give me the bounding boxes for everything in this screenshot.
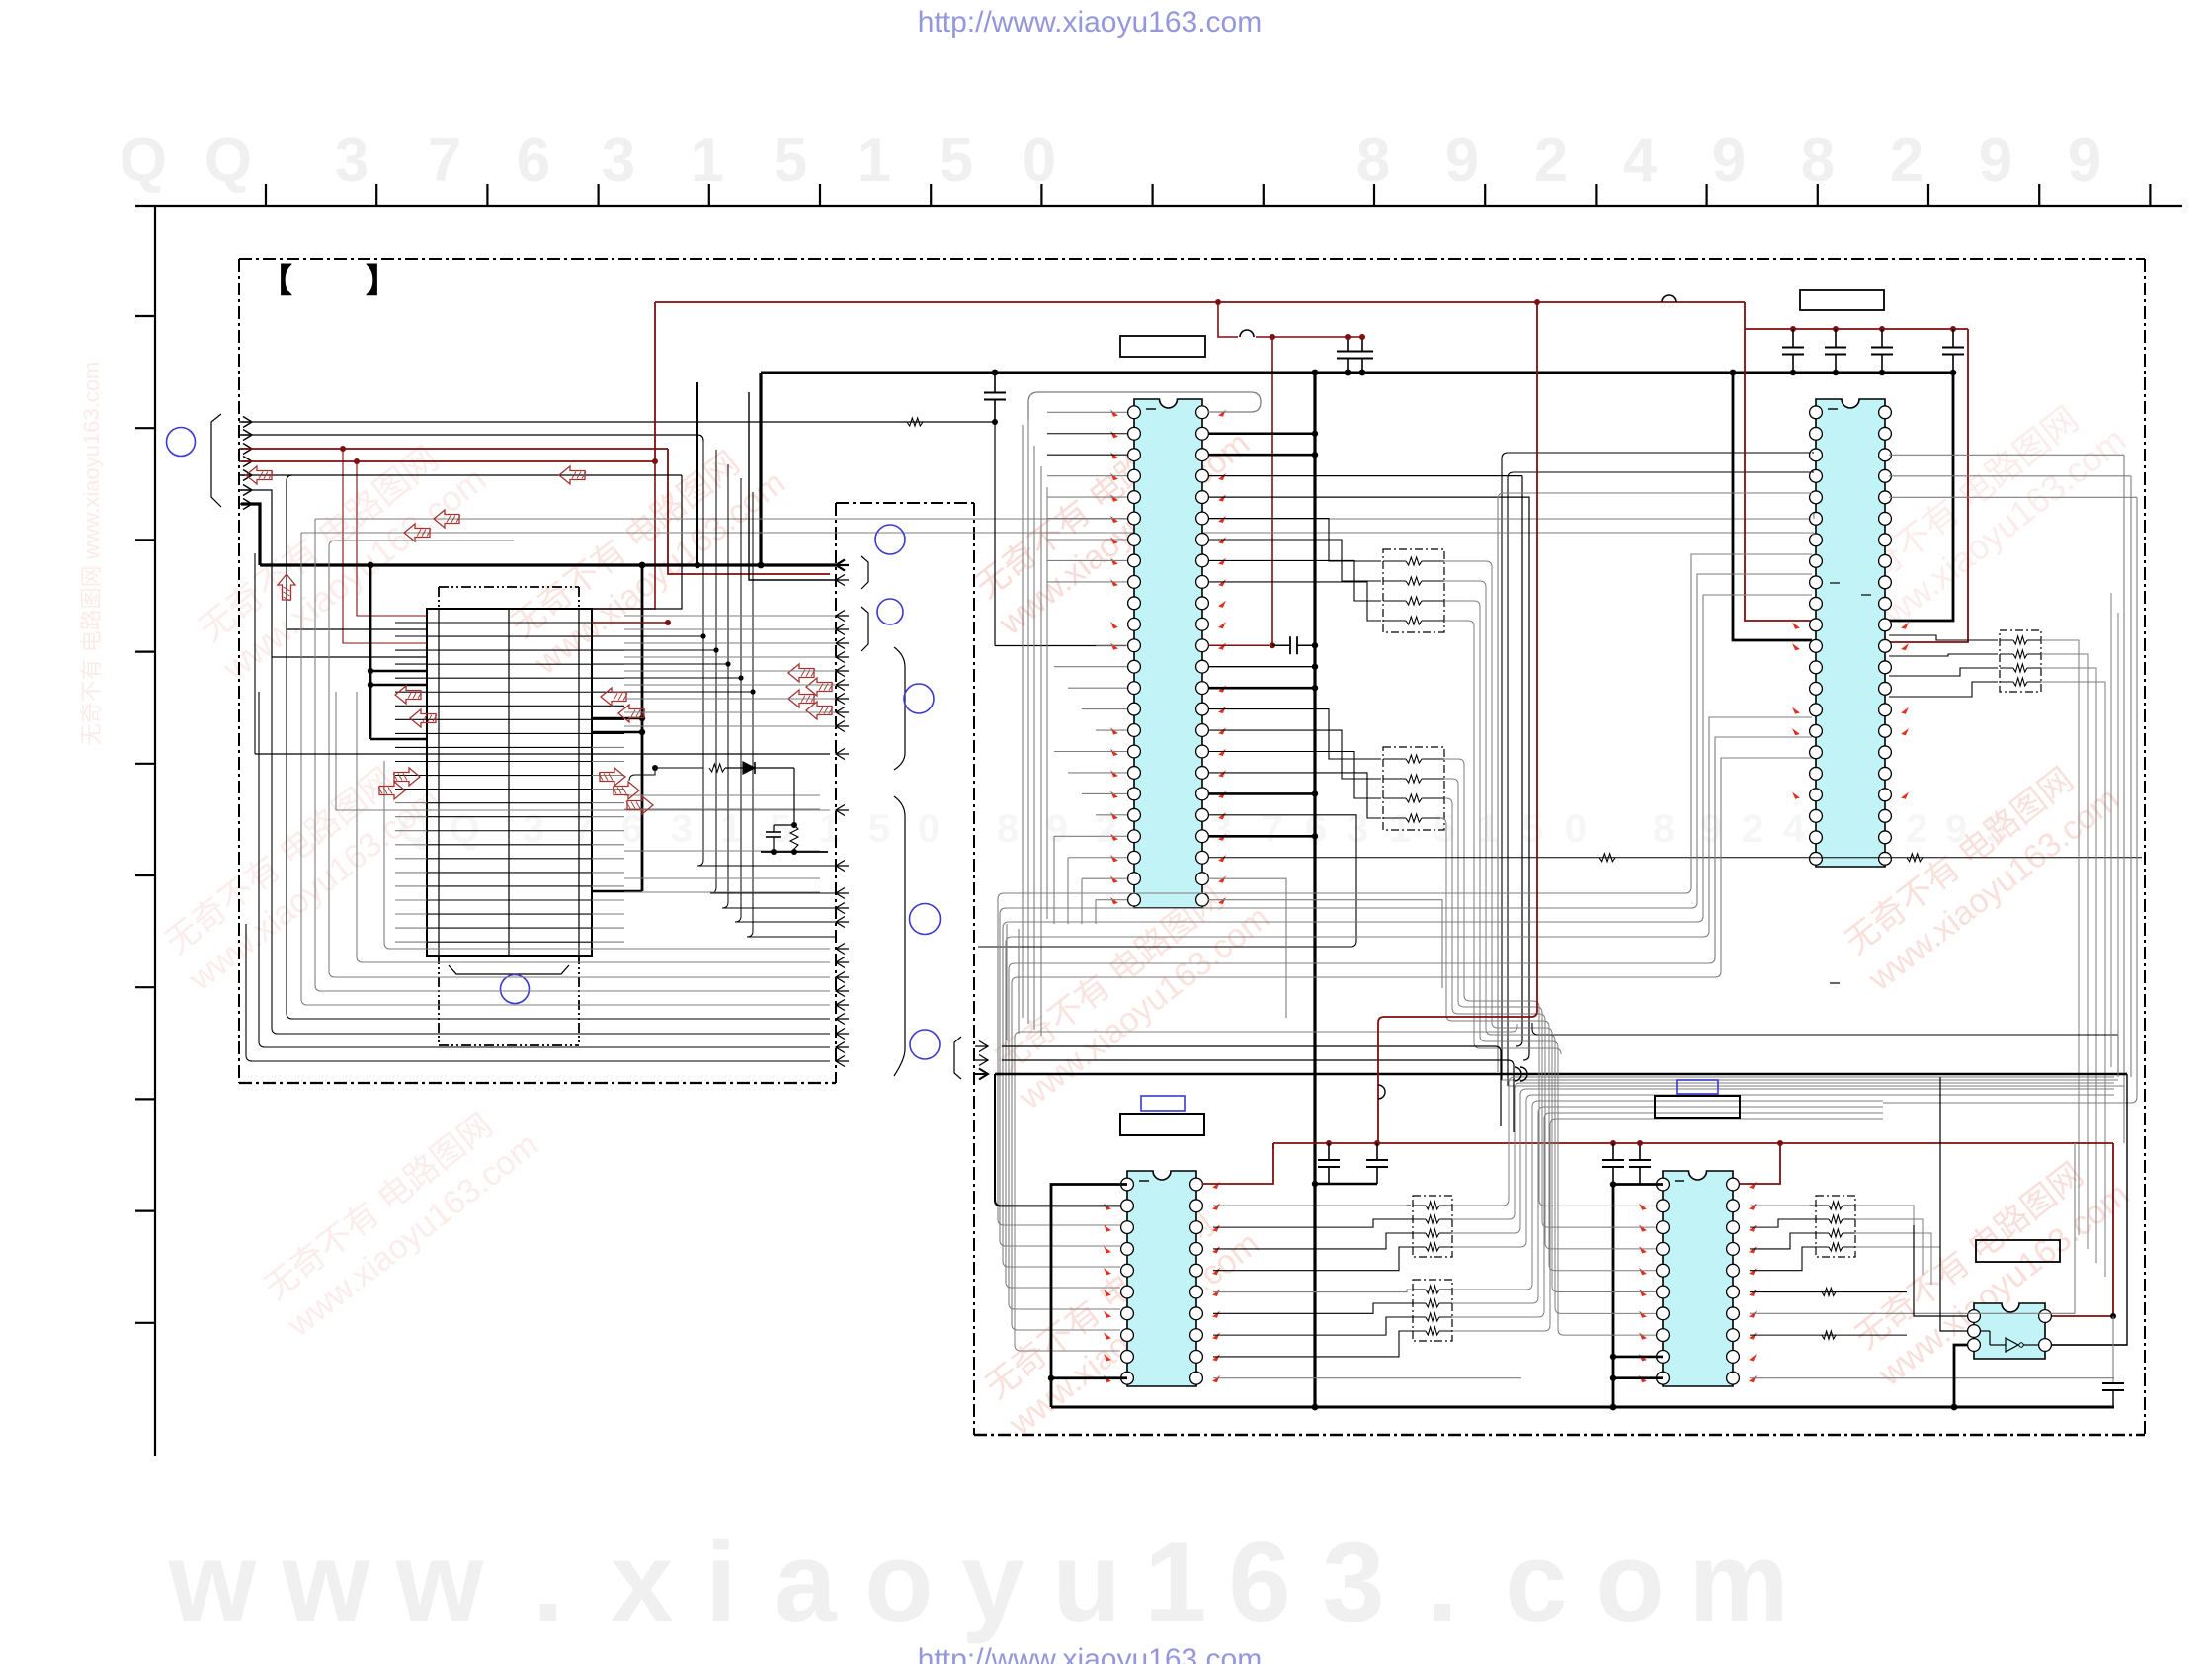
- svg-text:2: 2: [1742, 807, 1763, 851]
- wire: vertical x305 bottom loop: [301, 533, 830, 1005]
- wire: thick bus y574: [260, 563, 836, 566]
- svg-text:c: c: [1505, 1520, 1567, 1645]
- IC U1 pins: [1128, 406, 1141, 419]
- wires out of box C rising to long rows: [1452, 1077, 2114, 1206]
- wire: bottom bundle row1047 long: [1538, 1034, 2118, 1036]
- pink watermark mid lower: [985, 865, 1276, 1118]
- wire: IC2 right rows extend: [1889, 454, 2124, 456]
- IC U5 pins: [1968, 1310, 1981, 1323]
- svg-text:7: 7: [428, 126, 461, 195]
- connector left pin leads: [395, 622, 427, 624]
- wire: red row3 drop x676 to 581: [668, 449, 830, 574]
- diode D1: [743, 762, 755, 774]
- brace right of terminals rows572-587: [861, 556, 868, 589]
- caps IC3 area: [1328, 1143, 1330, 1160]
- wire: IC1 pin22 long with resistors: [1208, 857, 2142, 859]
- wire: thick riser x770 to top bus: [759, 373, 762, 565]
- svg-text:3: 3: [1210, 807, 1232, 851]
- svg-text:1: 1: [819, 807, 841, 851]
- svg-text:6: 6: [517, 126, 550, 195]
- svg-text:3: 3: [335, 126, 369, 195]
- wire: black drop x1754 to IC2 left pin: [1733, 373, 1812, 640]
- arrow row800 left side out: [379, 782, 405, 799]
- wire IC4 pin8 with resistor: [1750, 1334, 1907, 1336]
- IC U2 pin ticks: [1793, 624, 1799, 629]
- svg-text:http://www.xiaoyu163.com: http://www.xiaoyu163.com: [918, 6, 1263, 39]
- dash-dot border: main block right edge: [2144, 259, 2146, 1435]
- IC U4 pins: [1657, 1178, 1670, 1191]
- red rail y1157 bottom: [1273, 1142, 2113, 1144]
- wire: IC2 pins rows520 541 arrive: [1812, 514, 1814, 519]
- wire: thick branch row693: [370, 684, 427, 687]
- pink watermark connector area: [501, 430, 792, 683]
- svg-text:5: 5: [770, 807, 791, 851]
- wire: left loop x347b row974: [357, 692, 830, 962]
- wire: bottom bundle row1059 from terminal: [1002, 1046, 1501, 1126]
- svg-text:1: 1: [691, 126, 724, 195]
- circle ref A left: [167, 428, 196, 457]
- svg-text:3: 3: [1347, 807, 1368, 851]
- wire: IC1 pin7 to resistor box A: [1208, 540, 1381, 581]
- svg-text:1: 1: [1144, 1520, 1206, 1645]
- connector CN1 lower bracket: [449, 965, 569, 974]
- wire: IC2 left pin 499 long: [1498, 493, 1812, 1072]
- svg-text:2: 2: [1890, 126, 1924, 195]
- wire: input row6 elbow down: [241, 490, 427, 657]
- wire: IC2 pin4 wire from left with drop: [1508, 472, 1812, 1086]
- wire: IC1 pin20 elbow down: [978, 815, 1356, 947]
- ruler vertical tick marks: [135, 315, 155, 317]
- wire: IC2 left pins 561-602 loop to IC3 fan: [998, 554, 1812, 1225]
- IC U2 pins: [1810, 406, 1823, 419]
- svg-text:w: w: [395, 1520, 484, 1645]
- dash-dot border: left block bottom edge: [239, 1082, 836, 1084]
- wire: thick branch row679: [370, 670, 427, 673]
- svg-text:o: o: [1596, 1520, 1665, 1645]
- wire: red riser x663 down into connector: [592, 461, 655, 609]
- svg-text:i: i: [705, 1520, 737, 1645]
- junction red bus at 1556: [1534, 299, 1540, 305]
- wire: red top bus y306: [655, 301, 1745, 303]
- small brace before bottom out-terminals: [954, 1037, 961, 1079]
- wire IC5 left pin1 from vertical: [1914, 1225, 1968, 1316]
- wire: IC1 pin4 long right: [1208, 475, 1522, 477]
- svg-text:y: y: [961, 1520, 1024, 1645]
- wire: left loop x249 row1074: [246, 924, 830, 1061]
- wire: row5 drop x690: [592, 475, 682, 609]
- main thick vertical x1331: [1313, 373, 1316, 1407]
- wire: red input row4: [241, 460, 655, 462]
- svg-text:http://www.xiaoyu163.com: http://www.xiaoyu163.com: [918, 1643, 1263, 1664]
- wire: black drop x1977 to IC2 right pin: [1889, 373, 1953, 621]
- wire: row763 long: [255, 753, 830, 755]
- wire: vertical x319 bottom loop: [315, 519, 830, 991]
- wire: red branch down x361 to connector: [357, 461, 427, 616]
- svg-text:1: 1: [720, 807, 742, 851]
- wire: IC2 right pins to resistor box: [1889, 635, 1998, 640]
- svg-text:2: 2: [1096, 807, 1117, 851]
- wires out of resistor box A feed IC4 fan: [1444, 561, 1552, 1034]
- svg-text:w: w: [168, 1520, 257, 1645]
- cap IC4 from rail: [1612, 1143, 1614, 1160]
- junction red row4 riser: [652, 458, 658, 464]
- pink watermark mid bottom: [975, 1191, 1267, 1444]
- svg-text:Q: Q: [205, 126, 252, 195]
- wire IC5 right pin2 join: [2052, 1344, 2127, 1346]
- svg-text:】: 】: [366, 263, 399, 300]
- svg-text:1: 1: [858, 126, 891, 195]
- wire: IC1 pin6 to resistor box A: [1208, 519, 1381, 561]
- connector CN1 dash-dot outline: [439, 586, 579, 588]
- junction thick 770: [758, 562, 765, 569]
- wire: IC1 pin12 red cap to bus: [1208, 644, 1272, 646]
- pink watermark left-mid: [155, 746, 447, 999]
- node group: left edge input terminals: [243, 417, 252, 428]
- IC U4 pin1 mark: [1675, 1180, 1684, 1182]
- resistor network box right of IC2: [2000, 630, 2041, 692]
- svg-text:9: 9: [1046, 807, 1068, 851]
- IC U4 body: [1663, 1171, 1733, 1386]
- svg-text:1: 1: [1389, 807, 1411, 851]
- wire: bundle row 1093 below bus: [1502, 1079, 2118, 1081]
- ruler vertical line: [154, 206, 156, 1456]
- arrow on row525: [434, 510, 459, 528]
- wire IC5 left pin2 from vertical: [1940, 1077, 1968, 1331]
- svg-text:2: 2: [1534, 126, 1568, 195]
- capacitor and resistor parallel pair: [774, 824, 794, 826]
- IC3 right wires to resistor boxes: [1213, 1205, 1411, 1206]
- brace right of terminals rows623-658: [861, 607, 868, 651]
- wires rows 623-735 from connector to column: [624, 615, 836, 617]
- wire: thick drop x2153 to IC5: [2052, 1074, 2127, 1345]
- wire: vertical x258 for row763: [254, 553, 256, 754]
- wire: pair bottom rail: [761, 851, 828, 853]
- junction red row3: [340, 446, 346, 452]
- arrow row695 near bus: [806, 678, 832, 696]
- svg-text:3: 3: [602, 126, 635, 195]
- wire IC3 pin10 gray long: [1213, 1377, 1521, 1379]
- IC U3 body: [1127, 1171, 1196, 1386]
- junction bus 1754: [1730, 370, 1737, 376]
- arrow row681 near bus: [788, 664, 814, 682]
- wire: IC1 left bundle risers to bottom: [1006, 924, 1008, 1040]
- arrow row786 right of connector: [600, 768, 625, 786]
- label box above IC1: [1120, 336, 1205, 357]
- circle ref B: [875, 525, 905, 554]
- svg-text:5: 5: [940, 126, 973, 195]
- svg-text:9: 9: [1979, 126, 2012, 195]
- wire: IC1 pin8 to resistor box A: [1208, 560, 1381, 601]
- IC U4 pin ticks: [1750, 1183, 1756, 1189]
- wire: left loop x275 row1046: [272, 657, 830, 1034]
- wire: IC1 pin23 gray elbow: [1208, 878, 1286, 1018]
- junction red sub-rail: [1270, 334, 1275, 340]
- junction bus 1364: [1345, 370, 1352, 376]
- svg-text:.: .: [1427, 1520, 1458, 1645]
- wires out of IC2 resistor box: [2041, 640, 2079, 1235]
- svg-text:u: u: [1052, 1520, 1121, 1645]
- ruler horizontal line: [135, 205, 2182, 207]
- wire: IC1 pin17 to box B: [1208, 751, 1381, 798]
- arrow on row5 mid: [559, 466, 585, 484]
- wire IC5 left pin3 thick to bus: [1954, 1345, 1968, 1407]
- wire: thick branch row727: [592, 717, 642, 720]
- dash-dot border: middle divider x=986: [973, 503, 975, 1435]
- wire: IC1 pin16 to box B: [1208, 730, 1381, 779]
- wire: input row7 thick elbow: [241, 504, 260, 565]
- bottom thick bus y1424: [1051, 1406, 2114, 1409]
- svg-text:w: w: [282, 1520, 370, 1645]
- wire: IC1 pin9 to resistor box A: [1208, 582, 1381, 621]
- wire: red branch down x347 to connector: [343, 449, 427, 643]
- IC U1 pin ticks: [1111, 411, 1117, 417]
- wire: left loop x375b row960: [384, 761, 830, 949]
- svg-text:【: 【: [259, 263, 292, 300]
- blue label box IC4: [1677, 1080, 1718, 1094]
- IC U1 body: [1134, 399, 1202, 908]
- junction thick 375: [368, 562, 374, 569]
- IC4 right wires to resistor box E: [1816, 1196, 1855, 1257]
- cap bottom right: [2112, 1316, 2114, 1383]
- arrow row719 near bus: [806, 702, 832, 719]
- svg-text:无奇不有 电路图网 www.xiaoyu163.com: 无奇不有 电路图网 www.xiaoyu163.com: [79, 362, 104, 746]
- wire: IC1 pin21 thick: [1208, 835, 1315, 838]
- wire IC4 pin10 right gray: [1750, 1377, 2114, 1379]
- wire: thick drop x650 right side: [641, 565, 644, 891]
- wires IC3 pins3-5 stepping into box C: [1213, 1219, 1413, 1227]
- wire: IC1 pin18 to box B: [1208, 773, 1381, 818]
- wire: left loop x333 row989: [329, 546, 830, 977]
- wire: input row5 with arrows: [241, 474, 682, 476]
- pink watermark right bottom: [1844, 1141, 2136, 1394]
- wire: vertical x340 for row820: [335, 692, 337, 810]
- blue label box IC3: [1141, 1096, 1185, 1111]
- wires out of box E to right verticals: [1855, 1206, 1914, 1265]
- wire: thick drop x375 to connector rows: [369, 565, 372, 739]
- circle ref E: [910, 904, 941, 935]
- svg-text:0: 0: [1023, 126, 1056, 195]
- IC U1 pin1 mark: [1146, 408, 1156, 410]
- resistor network box A right of IC1: [1383, 549, 1444, 632]
- IC4 thick frame: [1613, 1185, 1663, 1407]
- IC U2 inner pin name dashes: [1830, 582, 1840, 584]
- ruler horizontal tick marks: [265, 184, 267, 206]
- wire: IC1 pin15 to box B: [1208, 709, 1381, 759]
- svg-text:5: 5: [868, 807, 890, 851]
- junction bus 1331: [1312, 370, 1319, 376]
- svg-text:5: 5: [1521, 807, 1543, 851]
- junction thick 650: [639, 562, 646, 569]
- thick black seg under IC3 caps: [1315, 1183, 1377, 1186]
- wire: red drop x1288 to IC1 pin12 cap: [1271, 337, 1273, 646]
- IC U5 body: [1974, 1303, 2045, 1359]
- wire: red input row3: [241, 448, 668, 450]
- wire: red sub-rail y341 to caps: [1256, 336, 1364, 338]
- dash-dot border: bottom block bottom edge: [974, 1434, 2145, 1437]
- IC4 left fan verticals: [1539, 1007, 1656, 1206]
- wire: red row630 right side: [592, 622, 668, 624]
- main black bus y376: [761, 372, 1953, 374]
- dash-dot border: left block left edge: [238, 259, 240, 1083]
- dash-dot border: middle column top edge: [836, 502, 974, 504]
- svg-text:5: 5: [774, 126, 807, 195]
- wire jump on red sub-rail: [1240, 330, 1254, 337]
- wire: red drop x1992 to IC2 right pin: [1889, 329, 1968, 642]
- arrow row722 right of connector: [618, 705, 644, 722]
- arrow row707 near bus: [788, 690, 814, 707]
- arrow row786 left side out: [394, 768, 420, 786]
- svg-text:9: 9: [1712, 126, 1746, 195]
- wire: IC2 left lower pins loops to IC3 fan: [1006, 717, 1812, 1288]
- pink watermark mid IC1: [965, 390, 1257, 643]
- wire: row525 from x319: [315, 518, 1814, 520]
- resistor network box D: [1413, 1280, 1452, 1341]
- svg-text:4: 4: [1623, 126, 1658, 195]
- wire: red drop x1767 to IC2 left pin: [1745, 329, 1812, 621]
- dash-dot border: middle divider x=846: [835, 503, 837, 1083]
- junction bus 1007: [992, 370, 999, 376]
- arrow on row5 left: [246, 466, 272, 484]
- connector CN1 circle ref: [501, 975, 530, 1004]
- pink watermark right top: [1827, 383, 2133, 649]
- wire: row1044 into IC3 fan pin9: [1512, 1024, 1517, 1032]
- red wire: IC3 pin1 riser: [1202, 1143, 1273, 1184]
- svg-text:o: o: [864, 1520, 934, 1645]
- wire: left loop x290 row1031: [287, 629, 830, 1019]
- caps pair above IC4: [1639, 1143, 1641, 1160]
- wires IC3 pins6-9 stepping into box D: [1213, 1290, 1413, 1292]
- wire: IC1 pin14 to right: [1208, 687, 1315, 690]
- wire: IC1 pin2 thick to bus: [1208, 432, 1315, 435]
- circle ref D: [904, 684, 934, 713]
- svg-text:a: a: [774, 1520, 838, 1645]
- IC U3 pins: [1121, 1178, 1134, 1191]
- svg-text:3: 3: [1322, 1520, 1384, 1645]
- junction red row4: [354, 458, 360, 464]
- IC1 left lower staircase: [1053, 836, 1055, 924]
- wire: mid rows going right from connector: [624, 794, 820, 796]
- label box IC3: [1120, 1114, 1204, 1135]
- svg-text:4: 4: [1783, 807, 1806, 851]
- wire: diode output drop: [793, 768, 795, 825]
- resistor network box B right of IC1: [1383, 747, 1444, 830]
- svg-text:6: 6: [621, 807, 643, 851]
- terminal arrows '<' on x846 column: [836, 560, 845, 571]
- wire: IC2 pin3 wire from left with drop: [1502, 453, 1812, 1080]
- resistor network box C: [1413, 1196, 1452, 1257]
- connector right row leads to risers: [624, 635, 703, 637]
- wire: red bus drop to y341 sub-rail: [1218, 302, 1238, 337]
- arrow row800 right of connector: [614, 782, 639, 799]
- svg-text:0: 0: [1565, 807, 1587, 851]
- red junctions on rail: [1326, 1140, 1332, 1146]
- arrow up on x290 riser: [278, 574, 295, 600]
- wire: bundle row 1099 below bus: [1508, 1086, 2124, 1102]
- caps x4 on red rail to bus: [1792, 329, 1794, 348]
- wire: node row777: [629, 768, 703, 781]
- dash-dot border: main block outline top edge: [239, 258, 2145, 260]
- wire: row820 mid: [336, 809, 830, 811]
- red wire corner into rail: [1272, 1143, 1274, 1149]
- red wire: drop x1556 from top bus: [1378, 302, 1537, 1143]
- wire: IC3 thick frame: [1051, 1185, 1127, 1407]
- wire: IC2 upper right rows long: [1889, 455, 2055, 553]
- wire: IC1 pin19 thick: [1208, 792, 1315, 795]
- wire: input row2 to riser: [241, 435, 703, 441]
- wire: row481 drop x290 via arc: [287, 475, 427, 629]
- arrow on row539: [404, 524, 430, 541]
- caps pair 1364 1379 between red rail and bus: [1347, 337, 1349, 352]
- wire: riser x758 for row 587: [749, 392, 836, 580]
- wire: long thin y462 right of IC2: [1888, 454, 1890, 456]
- svg-text:Q: Q: [120, 126, 167, 195]
- IC U2 pin1 mark: [1828, 408, 1838, 410]
- svg-text:0: 0: [918, 807, 940, 851]
- label box IC4: [1655, 1096, 1740, 1118]
- svg-text:2: 2: [1906, 807, 1927, 851]
- wire: x1007 down to IC1 pin12 row: [994, 420, 996, 646]
- wire: input row1 long black to cap node: [241, 421, 995, 423]
- pink watermark upper-left: [187, 423, 493, 689]
- circle ref C: [877, 599, 903, 624]
- terminal row574: [836, 560, 845, 571]
- junction red bus at 1233: [1215, 299, 1221, 305]
- label box top right: [1800, 290, 1884, 310]
- wire: row539 from x305: [301, 532, 1814, 534]
- svg-text:x: x: [611, 1520, 673, 1645]
- junction bus 1379: [1359, 370, 1366, 376]
- red wire: rail drop to IC4 pin1: [1740, 1143, 1780, 1184]
- IC U2 body: [1816, 399, 1885, 867]
- big bracket rows663-775: [894, 647, 905, 770]
- jump arc on red vertical x1395: [1378, 1085, 1385, 1099]
- wire: thick elbow x1007 down to IC3 pin2: [995, 1074, 1120, 1206]
- svg-text:7: 7: [1262, 807, 1283, 851]
- wire: bottom bundle row1073 from terminal: [1002, 1060, 1514, 1132]
- wire: thick branch row902: [592, 890, 642, 893]
- wire: thick branch row741: [592, 731, 642, 734]
- IC1 left bundle verticals: [1022, 425, 1024, 1018]
- pink watermark lower-left: [254, 1092, 545, 1345]
- wire: red riser x663 up to top bus: [654, 302, 656, 461]
- red wire rail corner down to IC5: [2052, 1143, 2113, 1316]
- arrow row727 left side: [410, 709, 436, 727]
- wire: left loop x262 row1060: [259, 692, 830, 1047]
- pink watermark right mid: [1835, 746, 2126, 999]
- wire: IC1 pin3 thick to bus: [1208, 454, 1315, 457]
- wire: IC1 pin24 gray long: [1208, 900, 1442, 988]
- svg-text:9: 9: [2068, 126, 2101, 195]
- wire IC4 pin7 long gray: [1750, 1312, 2075, 1314]
- connector CN1 body grid: [427, 609, 592, 956]
- svg-text:6: 6: [1228, 1520, 1290, 1645]
- capacitor below bus at 1007: [994, 373, 996, 393]
- arrow row705 right of connector: [601, 688, 626, 706]
- svg-text:3: 3: [671, 807, 693, 851]
- resistor inline on row1: [907, 418, 923, 426]
- wire: IC1 pin13 thick: [1208, 666, 1315, 668]
- wire jump on red bus y306 at 1689: [1662, 295, 1676, 302]
- IC U3 pin1 mark: [1139, 1180, 1149, 1182]
- wire: IC2 left pins 458 478 arrive: [1812, 452, 1814, 454]
- wires out of box D rising: [1452, 1101, 1883, 1290]
- red rail y333 top right: [1745, 302, 1968, 329]
- big bracket rows808-1089: [894, 796, 905, 1076]
- wire: IC1 pin5 long right: [1208, 497, 1529, 1060]
- wires out of resistor box B feed IC4 fan: [1444, 759, 1539, 1007]
- circle ref F: [910, 1030, 940, 1059]
- IC1 left pin stub wires: [1047, 411, 1127, 413]
